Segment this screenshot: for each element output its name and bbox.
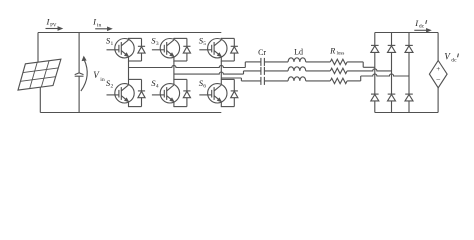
diode D1 antiparallel with S1 (129, 38, 146, 61)
wire: rectifier leg 1 (374, 33, 376, 113)
label I_in (92, 17, 101, 29)
diode rectifier top leg 3 (405, 45, 413, 52)
svg-text:in: in (100, 77, 105, 83)
diode D6 antiparallel with S6 (221, 79, 238, 106)
svg-text:1: 1 (111, 41, 114, 47)
diode D2 antiparallel with S2 (129, 79, 146, 106)
solar PV array panel (18, 59, 61, 90)
diode rectifier bottom leg 1 (371, 94, 379, 101)
dependent source V_dc' (diamond) (429, 61, 447, 88)
resistor R_loss phase A (330, 59, 347, 64)
svg-text:5: 5 (203, 41, 206, 47)
current arrow I_dc' (414, 29, 430, 32)
wire: input cap branch upper (78, 33, 80, 74)
diode rectifier bottom leg 2 (388, 94, 396, 101)
wire: phase B from leg 2 (hop over leg 3) (174, 71, 261, 74)
wire: input cap branch lower (78, 76, 80, 112)
diode rectifier top leg 2 (388, 45, 396, 52)
svg-text:6: 6 (203, 84, 206, 90)
wire: leg 2 midpoint segment (173, 61, 175, 79)
label R_loss (329, 46, 344, 56)
inductor Ld phase A (288, 58, 330, 62)
label S6 (199, 78, 207, 90)
wire: phase A from leg 1 (hops over legs 2,3) (129, 62, 261, 68)
wire: PV positive lead (37, 33, 39, 63)
svg-text:R: R (329, 46, 335, 55)
wire: inverter DC- bottom rail (40, 112, 221, 114)
wire: leg 1 midpoint segment (128, 61, 130, 79)
svg-text:Ld: Ld (294, 48, 303, 57)
svg-text:dc: dc (419, 24, 425, 30)
svg-text:2: 2 (111, 84, 114, 90)
diode D5 antiparallel with S5 (221, 38, 238, 61)
label S1 (106, 35, 114, 47)
wire: phase B to rectifier leg 2 (hop over leg 1) (347, 69, 391, 71)
transistor S1 (IGBT) (107, 38, 135, 62)
svg-text:3: 3 (156, 41, 159, 47)
diode D3 antiparallel with S3 (174, 38, 191, 61)
wire: rectifier leg 3 (408, 33, 410, 113)
wire: phase A to rectifier leg 1 (347, 62, 375, 67)
label I_PV (46, 17, 57, 29)
voltage arc arrow V_in (81, 57, 87, 91)
label S4 (151, 78, 159, 90)
svg-text:4: 4 (156, 84, 159, 90)
wire: rectifier leg 2 (391, 33, 393, 113)
wire: leg 3 midpoint segment (220, 61, 222, 79)
label Cr (258, 48, 266, 57)
capacitor Cr phase A (261, 58, 288, 66)
label S5 (199, 35, 207, 47)
wire: DC output branch lower (437, 88, 439, 113)
resistor R_loss phase C (330, 78, 347, 83)
label V_in (93, 70, 105, 83)
inductor Ld phase B (288, 67, 330, 71)
transistor S3 (IGBT) (152, 38, 180, 62)
label S3 (151, 35, 159, 47)
svg-text:+: + (436, 65, 440, 73)
wire: DC output branch upper (437, 33, 439, 61)
label V_dc' (444, 52, 458, 64)
current arrow I_PV (46, 27, 62, 30)
capacitor Cr phase B (261, 67, 288, 75)
capacitor Cr phase C (261, 77, 288, 85)
capacitor C_in plates (75, 73, 84, 76)
diode rectifier bottom leg 3 (405, 94, 413, 101)
transistor S4 (IGBT) (152, 79, 180, 107)
svg-text:dc: dc (451, 58, 457, 64)
label I_dc' (414, 18, 426, 30)
inductor Ld phase C (288, 77, 330, 81)
diode D4 antiparallel with S4 (174, 79, 191, 106)
svg-text:loss: loss (337, 52, 345, 57)
label S2 (106, 78, 114, 90)
current arrow I_in (95, 27, 111, 30)
resistor R_loss phase B (330, 68, 347, 73)
wire: PV negative lead (pole) (39, 87, 41, 112)
transistor S5 (IGBT) (199, 38, 227, 62)
svg-text:Cr: Cr (258, 48, 266, 57)
wire: inverter DC+ top rail (38, 32, 221, 34)
wire: phase C from leg 3 (221, 78, 261, 81)
wire: rectifier DC+ top rail (375, 32, 438, 34)
svg-text:in: in (97, 22, 102, 28)
wire: rectifier DC- bottom rail (375, 112, 438, 114)
svg-text:PV: PV (50, 23, 57, 28)
wire: phase C to rectifier leg 3 (hops over legs 1,2) (347, 74, 409, 81)
diode rectifier top leg 1 (371, 45, 379, 52)
label Ld (294, 48, 303, 57)
transistor S6 (IGBT) (199, 79, 227, 107)
svg-text:−: − (436, 76, 441, 85)
transistor S2 (IGBT) (107, 79, 135, 107)
